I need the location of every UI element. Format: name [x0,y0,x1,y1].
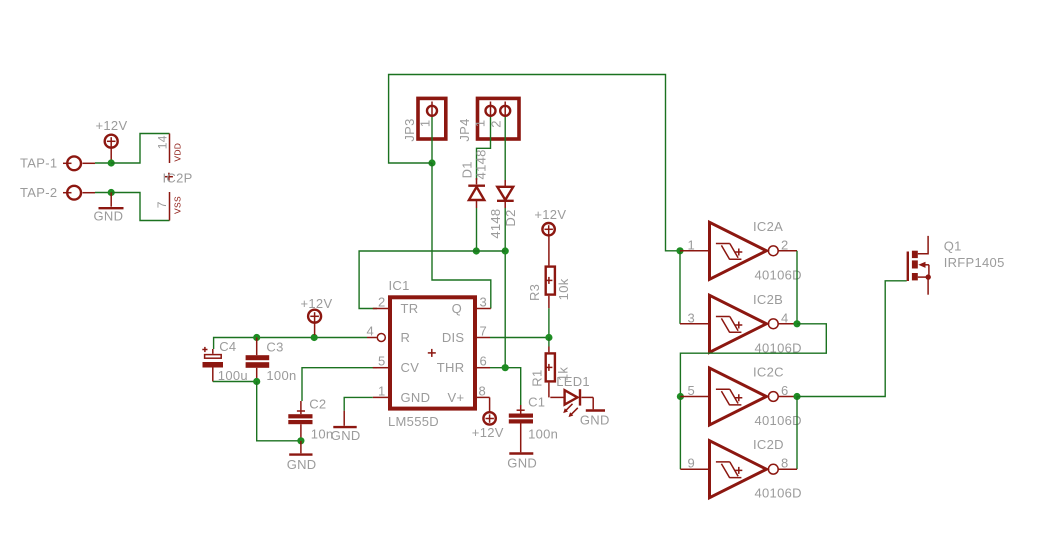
svg-text:Q1: Q1 [944,239,962,254]
svg-text:5: 5 [687,383,695,398]
svg-text:2: 2 [378,295,386,310]
wire TAP-1 to junction [95,162,111,164]
connector IC2P pin 7 VSS [169,192,171,221]
svg-text:JP4: JP4 [457,118,472,141]
junction IC2C output [793,393,800,400]
jumper JP4 pad 1 [486,102,496,118]
svg-text:GND: GND [331,428,361,443]
wire CV net pin5 to C2 [302,368,377,401]
junction C3 top [253,334,260,341]
svg-text:1: 1 [378,383,386,398]
wire THR net pin 6 to D2/C1 [490,368,521,405]
svg-text:R: R [401,330,411,345]
junction IC2A input [676,247,683,254]
svg-text:IC2B: IC2B [753,292,783,307]
ground GND (under TAP-2) [99,193,124,209]
jumper JP4 body [478,98,520,139]
IC1 pin 8 V+ stub [477,396,490,398]
svg-text:GND: GND [507,456,537,471]
label D1 value 4148 [474,149,489,179]
wire JP4 pin 1 to D1 [477,117,491,180]
supply +12V (R3 top) [542,223,554,236]
label R3 value 10k [556,278,571,300]
inverter IC2B [680,295,797,352]
svg-text:8: 8 [479,383,487,398]
label JP4 pin 1 [473,120,488,128]
capacitor C3 100n [246,338,270,382]
supply +12V (left) [105,135,118,160]
wire junction down to IC1 pin 3 Q [432,163,491,309]
svg-text:GND: GND [287,457,317,472]
IC1 pin 3 Q stub [477,308,491,310]
svg-text:IC2A: IC2A [753,219,783,234]
jumper JP3 pad 1 [427,102,437,118]
inverter IC2A [680,222,797,279]
connector pad TAP-2 [63,186,95,200]
capacitor C1 100n [509,405,533,452]
svg-text:14: 14 [155,135,169,149]
svg-text:IRFP1405: IRFP1405 [944,255,1005,270]
wire TR loop to IC1 pin 2 [359,251,505,309]
capacitor C4 100u [202,347,223,382]
svg-text:TAP-2: TAP-2 [20,185,57,200]
svg-text:LED1: LED1 [556,374,590,389]
connector IC2P pin 14 VDD [169,134,171,164]
svg-text:5: 5 [378,354,386,369]
wire D1 down to TR net [476,208,478,251]
diode D1 4148 [468,178,485,208]
svg-text:LM555D: LM555D [388,414,439,429]
IC1 pin 1 GND stub [373,396,388,398]
svg-text:THR: THR [437,360,465,375]
inverter IC2D [680,441,797,498]
capacitor C2 10n [288,401,312,441]
svg-text:40106D: 40106D [755,413,802,428]
svg-text:2: 2 [781,237,789,252]
svg-text:100u: 100u [218,368,248,383]
svg-text:TR: TR [401,301,419,316]
svg-text:IC2C: IC2C [753,365,784,380]
junction C2 bottom [297,437,304,444]
wire reset net C4/C3/+12V to pin 4 [214,338,367,350]
label R1 [529,369,544,386]
wire IC2A output down to IC2B output [796,251,798,324]
label pin name VDD [173,143,183,162]
svg-text:IC2P: IC2P [163,171,193,186]
label pin number 7 [155,201,169,208]
svg-text:1: 1 [687,237,695,252]
resistor R1 [545,347,555,398]
IC1 origin cross [428,349,436,357]
svg-text:4148: 4148 [474,149,489,179]
svg-text:1: 1 [417,120,432,128]
junction TAP-1 / +12V [108,159,115,166]
svg-text:100n: 100n [528,427,558,442]
svg-text:8: 8 [781,456,789,471]
ground GND (LED1) [586,409,605,411]
wire IC2A input to IC2B input [679,251,681,324]
wire IC2D output up to IC2C output [796,397,798,470]
label JP3 [402,118,417,141]
svg-text:C4: C4 [219,339,236,354]
wire R1 top [548,338,550,347]
label JP3 pin 1 [417,120,432,128]
ground GND (under C1) [509,452,533,454]
svg-text:1: 1 [473,120,488,128]
svg-text:DIS: DIS [442,330,465,345]
connector IC2P origin cross [165,173,173,181]
supply +12V (middle) [308,310,321,335]
diode D2 4148 [497,180,514,208]
IC1 pin 2 TR stub [373,308,388,310]
jumper JP3 body [418,98,446,139]
svg-text:4: 4 [781,310,789,325]
svg-text:+12V: +12V [534,207,566,222]
svg-text:IC1: IC1 [389,278,410,293]
svg-text:+12V: +12V [96,118,128,133]
wire JP3 pin down to junction [431,117,433,163]
label D2 [503,209,518,226]
svg-text:C3: C3 [266,340,283,355]
svg-text:4: 4 [366,324,374,339]
wire junction to IC2P pin 7 [111,193,169,221]
label R3 [527,284,542,301]
IC1 pin 8 V+ wire to +12V [489,397,491,411]
junction IC2C input [677,393,684,400]
connector pad TAP-1 [63,156,95,170]
junction THR / D2 [502,364,509,371]
svg-text:6: 6 [781,383,789,398]
IC1 pin 4 R bubble [367,334,385,342]
wire IC2C output to Q1 gate [797,281,907,397]
svg-text:GND: GND [580,413,610,428]
svg-text:+12V: +12V [301,296,333,311]
junction DIS / R3 / R1 [545,334,552,341]
wire C3 bottom down to C2 bottom junction [257,382,301,441]
junction D1 / TR net [473,247,480,254]
wire IC2B output loop to IC2C input [680,324,826,397]
svg-text:3: 3 [687,310,695,325]
wire junction to IC2P pin 14 [111,134,169,164]
label R1 value 1k [556,367,571,382]
junction C3 bottom [253,378,260,385]
junction TAP-2 / GND [108,189,115,196]
LED LED1 [550,389,593,409]
svg-text:40106D: 40106D [755,486,802,501]
IC1 pin 7 DIS stub [477,337,490,339]
label JP4 [457,118,472,141]
ground GND (IC1 pin 1) [333,411,356,427]
junction IC2B output [793,320,800,327]
wire DIS net pin 7 to R junction [490,337,549,339]
wire TAP-2 to junction [95,192,111,194]
inverter IC2C [680,368,797,425]
svg-text:TAP-1: TAP-1 [20,156,57,171]
label D1 [460,161,475,178]
svg-text:R1: R1 [529,369,544,386]
supply +12V (pin 8) [483,412,495,424]
svg-text:40106D: 40106D [755,267,802,282]
junction D2 / TR net [502,247,509,254]
svg-text:GND: GND [94,209,124,224]
IC1 pin 5 CV stub [373,367,388,369]
IC IC1 LM555D body [390,297,475,408]
svg-text:6: 6 [480,354,488,369]
label pin number 14 [155,135,169,149]
svg-text:CV: CV [401,360,420,375]
svg-text:GND: GND [401,390,431,405]
transistor Q1 IRFP1405 [908,236,931,295]
svg-text:JP3: JP3 [402,118,417,141]
IC1 pin 6 THR stub [477,367,490,369]
svg-text:7: 7 [155,201,169,208]
svg-text:R3: R3 [527,284,542,301]
svg-text:C1: C1 [528,395,545,410]
svg-text:4148: 4148 [488,209,503,239]
svg-text:Q: Q [452,301,462,316]
svg-text:VDD: VDD [173,143,183,162]
wire JP4 pin 2 to D2 [504,117,506,182]
svg-text:7: 7 [480,324,488,339]
wire C4 bottom to C3 bottom [213,381,257,383]
wire R3 bottom to DIS net [548,308,550,337]
wire junction to top loop to IC2A input [389,75,680,251]
svg-text:+12V: +12V [472,425,504,440]
label JP4 pin 2 [488,120,503,128]
jumper JP4 pad 2 [500,102,510,118]
label D2 value 4148 [488,209,503,239]
svg-text:100n: 100n [266,368,296,383]
svg-text:D1: D1 [460,161,475,178]
svg-text:C2: C2 [309,396,326,411]
wire IC2C input to IC2D input [679,397,681,470]
svg-text:10k: 10k [556,278,571,300]
junction JP3 / Q / top loop [428,159,435,166]
resistor R3 10k [545,236,555,308]
svg-text:IC2D: IC2D [753,437,784,452]
svg-text:VSS: VSS [173,196,183,214]
ground GND (under C2) [289,441,312,455]
svg-text:9: 9 [687,456,695,471]
svg-text:V+: V+ [448,390,465,405]
svg-text:3: 3 [480,295,488,310]
LED LED1 light arrows [563,404,578,417]
wire pin 1 to ground [344,397,373,410]
junction +12V mid [311,334,318,341]
wire D2 down to THR net [504,208,506,368]
label pin name VSS [173,196,183,214]
